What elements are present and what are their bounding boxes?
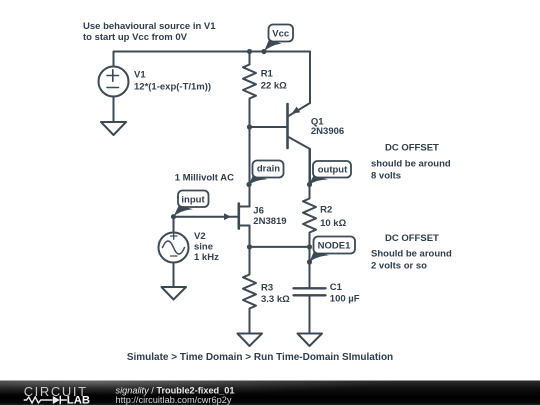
svg-text:12*(1-exp(-T/1m)): 12*(1-exp(-T/1m)) xyxy=(134,82,211,93)
svg-text:output: output xyxy=(318,164,348,175)
svg-text:C1: C1 xyxy=(330,282,343,293)
svg-text:sine: sine xyxy=(194,242,213,253)
svg-text:1 Millivolt AC: 1 Millivolt AC xyxy=(175,173,234,184)
svg-text:R1: R1 xyxy=(261,69,274,80)
svg-text:V2: V2 xyxy=(194,231,206,242)
svg-text:1 kHz: 1 kHz xyxy=(194,252,219,263)
svg-text:DC OFFSET: DC OFFSET xyxy=(385,143,439,154)
svg-text:input: input xyxy=(181,195,205,206)
svg-text:2N3819: 2N3819 xyxy=(253,216,286,227)
svg-text:NODE1: NODE1 xyxy=(318,241,351,252)
svg-text:8 volts: 8 volts xyxy=(371,171,401,182)
svg-text:Simulate > Time Domain > Run T: Simulate > Time Domain > Run Time-Domain… xyxy=(127,352,393,363)
svg-text:V1: V1 xyxy=(134,70,146,81)
svg-text:Vcc: Vcc xyxy=(272,28,289,39)
svg-text:http://circuitlab.com/cwr6p2y: http://circuitlab.com/cwr6p2y xyxy=(116,395,232,405)
svg-text:100 µF: 100 µF xyxy=(330,294,360,305)
svg-text:drain: drain xyxy=(257,164,280,175)
svg-text:LAB: LAB xyxy=(67,395,90,405)
svg-text:R2: R2 xyxy=(320,205,332,216)
svg-text:J6: J6 xyxy=(253,206,264,217)
svg-text:3.3 kΩ: 3.3 kΩ xyxy=(261,294,290,305)
svg-text:2 volts or so: 2 volts or so xyxy=(371,261,427,272)
svg-text:2N3906: 2N3906 xyxy=(311,126,344,137)
svg-text:10 kΩ: 10 kΩ xyxy=(320,218,346,229)
svg-text:Use behavioural source in V1: Use behavioural source in V1 xyxy=(83,21,216,32)
svg-text:DC OFFSET: DC OFFSET xyxy=(385,233,439,244)
svg-text:R3: R3 xyxy=(261,283,273,294)
svg-text:22 kΩ: 22 kΩ xyxy=(261,81,287,92)
svg-text:should be around: should be around xyxy=(371,158,451,169)
svg-text:to start up Vcc from 0V: to start up Vcc from 0V xyxy=(83,32,188,43)
svg-text:Should be around: Should be around xyxy=(371,249,452,260)
